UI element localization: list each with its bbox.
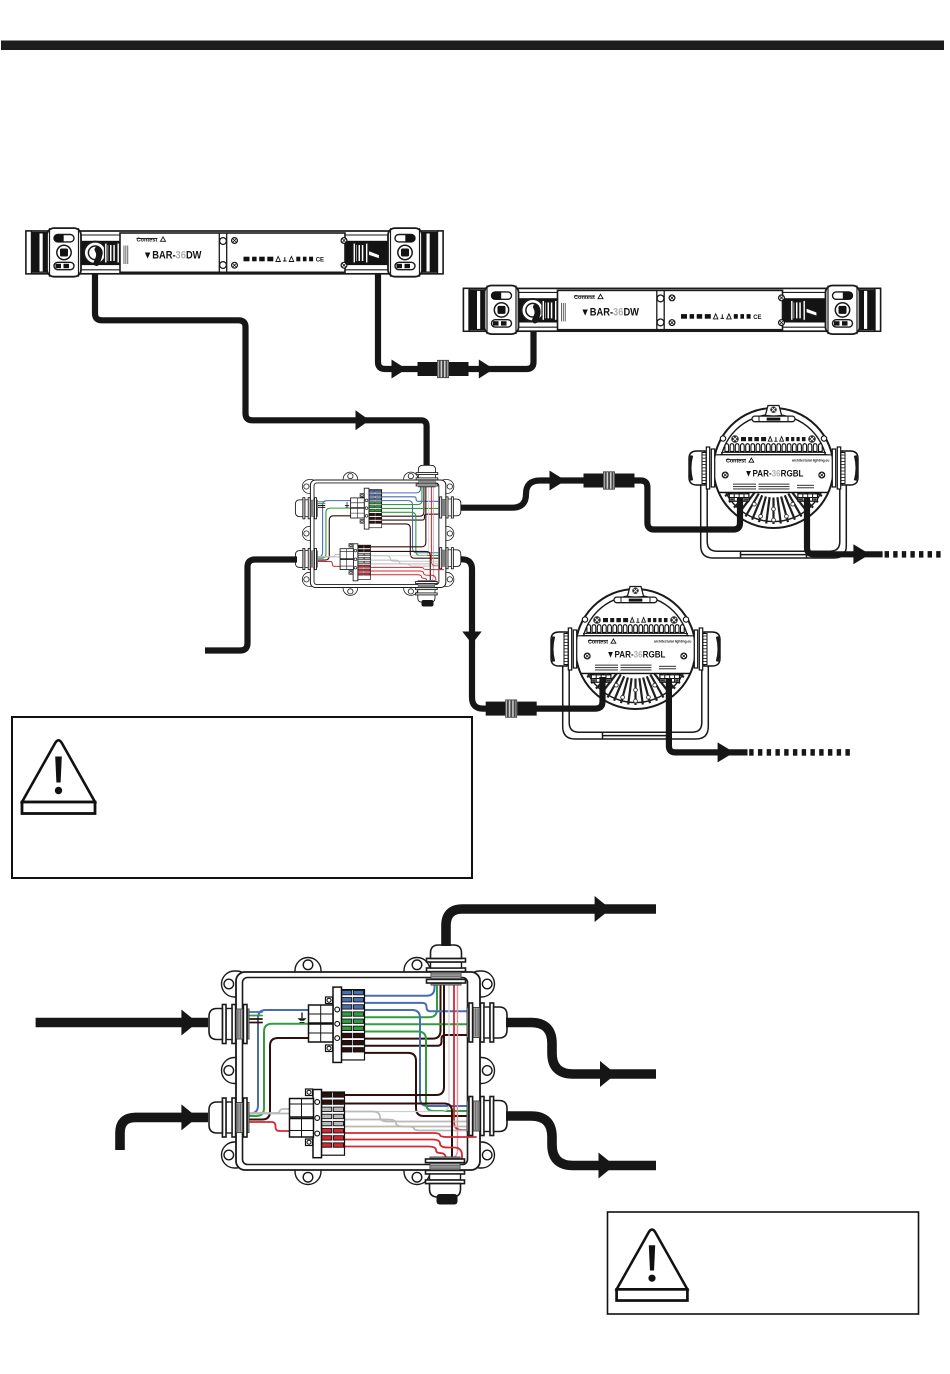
fixture VBAR-36DW #2 bbox=[464, 286, 881, 335]
inline connector to PAR2 bbox=[486, 700, 537, 717]
cable: output right 2 bbox=[506, 1116, 656, 1166]
header rule bbox=[1, 41, 944, 51]
junction box large bbox=[209, 945, 507, 1197]
wire: PAR1 right gland output bbox=[807, 497, 883, 554]
dashed continuation PAR2 bbox=[749, 749, 753, 756]
wire: connector to PAR2 left gland bbox=[536, 677, 603, 709]
wire: connector to bar2 left gland bbox=[468, 308, 534, 369]
inline connector to PAR1 bbox=[584, 472, 635, 489]
arrow into junction box bbox=[356, 410, 370, 430]
arrow downward bbox=[462, 632, 481, 645]
wire: junction box right lower gland down to PAR2 connector bbox=[458, 559, 486, 708]
wire: PAR2 right gland output bbox=[669, 678, 748, 752]
fixture VPAR-36RGBL #2 bbox=[551, 587, 720, 740]
small box bottom gland cable stub bbox=[422, 600, 434, 607]
dashed continuation PAR1 bbox=[885, 551, 889, 558]
cable curl at bar1 gland bbox=[97, 250, 100, 264]
arrow on link cable bbox=[392, 360, 407, 379]
cable: output right 1 bbox=[506, 1023, 656, 1075]
wire: small box left lower gland dead end bbox=[205, 560, 297, 651]
fixture VPAR-36RGBL #1 bbox=[689, 406, 858, 559]
wire: junction box right upper gland to PAR1 bbox=[459, 481, 584, 508]
wire: bar1 left gland to junction box top gland bbox=[95, 252, 427, 466]
warning box 1 bbox=[12, 717, 472, 878]
warning box 2 bbox=[608, 1212, 919, 1314]
bottom gland cable stub bbox=[437, 1194, 458, 1205]
cable: input left lower bbox=[120, 1117, 208, 1150]
inline connector bar1-bar2 bbox=[418, 360, 469, 377]
wire: bar1 right gland down to link connector bbox=[378, 266, 418, 369]
wire: connector to PAR1 left gland bbox=[634, 481, 740, 530]
junction box small bbox=[295, 465, 460, 602]
cable curl at bar2 gland bbox=[535, 307, 538, 321]
fixture VBAR-36DW #1 bbox=[26, 228, 443, 277]
warning triangle 2 bbox=[617, 1230, 688, 1301]
warning triangle 1 bbox=[22, 740, 95, 813]
arrow toward bar2 bbox=[479, 360, 494, 379]
cable: input left upper bbox=[36, 1018, 208, 1028]
cable: output top bbox=[446, 909, 656, 946]
